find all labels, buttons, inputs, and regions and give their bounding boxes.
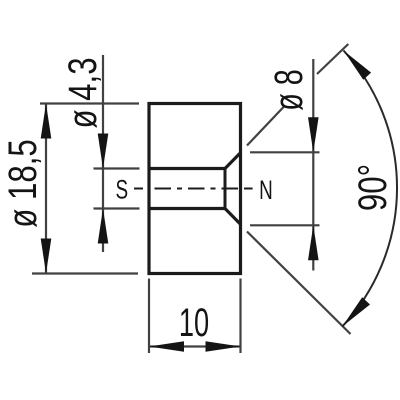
extension line upper for dia 8 (250, 151, 320, 153)
svg-text:N: N (259, 175, 273, 205)
dimension line 10 (149, 345, 241, 347)
svg-text:ø 4,3: ø 4,3 (60, 57, 105, 128)
centerline (dashed axis) (134, 188, 253, 190)
svg-text:ø 18,5: ø 18,5 (0, 139, 45, 227)
arrow left 10 (149, 341, 184, 352)
diagonal extension upper segment b (317, 44, 348, 74)
diagonal extension upper segment a (247, 106, 285, 146)
svg-text:90°: 90° (350, 164, 395, 211)
extension line top for dia 18.5 (40, 102, 139, 104)
countersink cone bottom edge (225, 209, 241, 225)
magnet body outline (section rectangle) (149, 104, 241, 274)
extension line bottom for dia 4.3 (94, 207, 140, 209)
extension line top for dia 4.3 (94, 167, 140, 169)
dimension line dia 4.3 (102, 55, 104, 252)
diagonal extension lower (247, 232, 351, 335)
arrow down dia 8 (308, 117, 319, 152)
extension line left for 10 (148, 279, 150, 354)
extension line lower for dia 8 (250, 224, 320, 226)
svg-text:S: S (115, 174, 128, 204)
hole top line (149, 167, 225, 170)
arrow up dia 4.3 (98, 209, 109, 244)
arrow down dia 4.3 (98, 134, 109, 169)
arrow right 10 (206, 341, 241, 352)
arrow up dia 18.5 (41, 104, 52, 139)
extension line right for 10 (239, 279, 241, 354)
dimension line dia 18.5 (45, 104, 47, 274)
svg-text:10: 10 (179, 301, 209, 345)
svg-text:ø 8: ø 8 (266, 69, 311, 111)
countersink cone top edge (225, 153, 241, 169)
90 degree arc (342, 51, 397, 327)
extension line bottom for dia 18.5 (32, 272, 138, 274)
arc arrowhead top (344, 51, 372, 80)
arrow up dia 8 (308, 225, 319, 260)
arc arrowhead bottom (342, 297, 370, 326)
dimension line dia 8 (312, 59, 314, 271)
cone-hole transition edge (224, 169, 227, 209)
hole bottom line (149, 207, 225, 210)
arrow down dia 18.5 (41, 239, 52, 274)
